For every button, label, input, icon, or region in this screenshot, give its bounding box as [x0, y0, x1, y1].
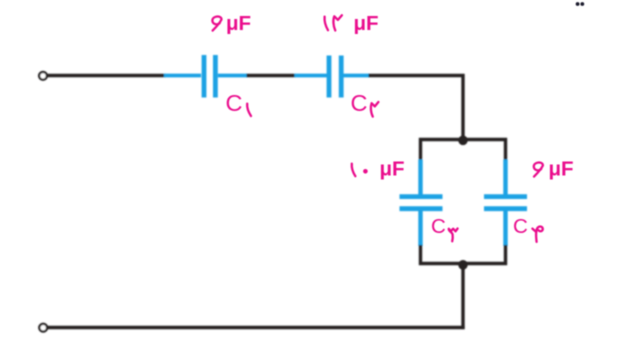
label: value 10uF of C3 (Persian 1 and 0-dot)	[352, 164, 356, 177]
terminal bottom-left	[39, 324, 47, 332]
wire: bottom rail of parallel section	[421, 245, 506, 264]
wire: cyan lead into C2	[295, 74, 328, 78]
svg-text:μF: μF	[549, 158, 574, 181]
label: C1 subscript Persian 1	[247, 104, 251, 116]
wire: vertical down from node B	[461, 264, 464, 330]
label: C2 subscript Persian 2	[371, 102, 379, 117]
label: C4 subscript Persian 4	[532, 226, 542, 241]
wire: bottom lead to terminal	[47, 326, 465, 329]
node A junction dot	[458, 136, 468, 146]
wire: cyan lower lead of C3	[418, 209, 422, 246]
svg-text:μF: μF	[380, 158, 405, 181]
wire: cyan lead out of C2	[343, 74, 369, 78]
label: value 6uF of C4 (Persian digit 6)	[534, 162, 543, 176]
svg-text:C: C	[351, 90, 368, 116]
svg-text:C: C	[431, 215, 446, 238]
wire: cyan lead out of C1	[218, 74, 248, 78]
capacitor C2 plates	[329, 56, 341, 98]
wire: cyan upper lead of C3	[418, 160, 422, 197]
wire: cyan upper lead of C4	[503, 160, 507, 197]
capacitor C1 plates	[204, 55, 215, 98]
svg-text:C: C	[513, 215, 528, 238]
wire: black top-right corner down to node A	[369, 76, 464, 142]
terminal top-left	[39, 72, 47, 80]
wire: black segment between C1 and C2	[247, 74, 296, 77]
wire: top lead black from terminal	[47, 74, 166, 77]
wire: cyan lead into C1	[164, 74, 201, 78]
label: value 6uF of C1 (Persian digit 6)	[212, 16, 221, 30]
wire: cyan lower lead of C4	[503, 209, 507, 246]
svg-text:μF: μF	[354, 12, 379, 35]
wire: top rail of parallel section	[421, 140, 506, 162]
stray printed dots (cropped text above figure)	[576, 2, 580, 6]
label: C3 subscript Persian 3	[449, 229, 458, 242]
node B junction dot	[458, 260, 468, 270]
label: value 12uF of C2 (Persian digits 1 2)	[325, 15, 342, 30]
capacitor C3 plates	[400, 197, 443, 209]
svg-text:C: C	[226, 90, 243, 116]
svg-text:μF: μF	[226, 12, 251, 35]
capacitor C4 plates	[484, 197, 527, 209]
